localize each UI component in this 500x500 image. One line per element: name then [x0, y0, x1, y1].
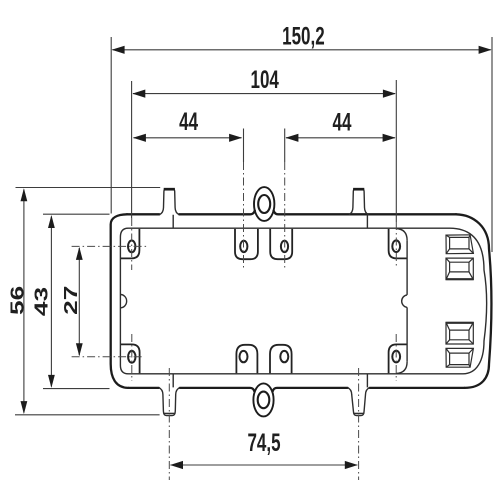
middle tab top-left: [235, 229, 258, 259]
middle tab bottom-left: [236, 345, 257, 373]
housing right: TR corner + bulged right edge + BR corner: [456, 214, 491, 388]
flange right edge: [406, 240, 408, 361]
corner tab BR: [389, 344, 408, 373]
peg top-left: [160, 189, 180, 215]
corner tab BL: [121, 344, 140, 373]
peg top-right: [349, 189, 369, 215]
housing top edge segments: [127, 211, 456, 215]
peg bottom-left: [159, 388, 180, 416]
middle tab bottom-right: [270, 345, 292, 373]
ridge A: [446, 235, 473, 254]
svg-text:150,2: 150,2: [282, 22, 325, 50]
svg-text:104: 104: [251, 66, 279, 94]
ridge C: [446, 322, 473, 344]
corner tab TL: [121, 229, 139, 259]
dimension 74,5: [170, 429, 358, 470]
ridge D: [446, 348, 473, 367]
peg bottom-right: [348, 388, 370, 416]
eyelet top: [254, 187, 274, 221]
throat stubs: [173, 215, 367, 388]
dimension 150,2: [111, 22, 492, 252]
housing outline left: TL corner + left edge + BL corner: [111, 214, 129, 388]
svg-text:43: 43: [30, 287, 51, 316]
eyelet bottom: [253, 383, 273, 416]
svg-text:74,5: 74,5: [247, 429, 280, 457]
svg-text:27: 27: [60, 286, 81, 315]
dimension 44 right: [285, 108, 395, 142]
dimension 104: [132, 66, 397, 222]
middle tab top-right: [270, 229, 292, 259]
right bump: [402, 295, 407, 308]
dimension 56: [6, 188, 160, 415]
dimension 43: [30, 214, 109, 388]
svg-text:44: 44: [333, 108, 352, 136]
ridge B: [446, 258, 473, 280]
dimension 27: [60, 247, 83, 356]
corner tab TR: [389, 229, 408, 259]
left bump: [120, 295, 126, 308]
housing bottom edge segments: [129, 388, 465, 392]
inner contour: [120, 228, 486, 374]
svg-text:56: 56: [6, 286, 27, 315]
centerlines: [131, 218, 133, 270]
dimension 44 left: [133, 108, 285, 162]
svg-text:44: 44: [179, 108, 198, 136]
